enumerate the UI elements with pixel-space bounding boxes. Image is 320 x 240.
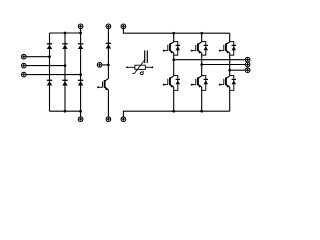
node: phase W junction [228,69,231,72]
wire: DC+ elbow into inverter top rail [123,28,124,33]
terminal chopper brake output [97,63,102,68]
wire: leg U midpoint vertical [173,53,175,76]
wire: diode D11 branch [202,76,206,91]
wire: chopper upper lead [107,28,109,78]
wire: rectifier bottom DC- rail [50,110,81,112]
wire: diode D10 branch [202,42,206,56]
node: AC L3/T junction [79,73,82,76]
node: top rail junction leg2 [64,32,67,35]
wire: rectifier leg 3 vertical [80,33,82,111]
terminal AC input L1/R [21,54,26,59]
node: top rail junction V [200,32,203,35]
terminal chopper bottom [106,117,111,122]
wire: leg W midpoint vertical [229,53,231,76]
wire: rectifier leg 2 vertical [64,33,66,111]
wire: DC+ terminal lead [80,28,82,33]
wire: AC input L3/T to leg [26,74,81,76]
node: bottom rail junction U [172,110,175,113]
diode D3 (leg3 upper) [78,44,83,49]
node: thermistor right pin [151,66,153,68]
terminal phase output W [245,68,250,73]
diode D5 (leg2 lower) [62,80,67,85]
wire: leg V midpoint vertical [201,53,203,76]
diode D13 (freewheel bottom W) [232,79,236,84]
node: top rail junction U [172,32,175,35]
transistor Q6 (bottom IGBT W) [219,76,230,88]
terminal inverter DC- [121,117,126,122]
diode D11 (freewheel bottom V) [204,79,208,84]
node: AC L1/R junction [48,55,51,58]
diode D10 (freewheel top V) [204,45,208,50]
terminal chopper top (DC+ in) [106,24,111,29]
transistor Q2 (bottom IGBT U) [163,76,174,88]
diode D1 (leg1 upper) [47,44,52,49]
terminal DC- (rectifier output minus) [78,117,83,122]
wire: leg U emitter stub [173,87,175,111]
terminal AC input L2/S [21,63,26,68]
node: phase V junction [200,63,203,66]
diode D7 (chopper) [106,43,111,48]
wire: DC- terminal lead [80,111,82,117]
diode D4 (leg1 lower) [47,80,52,85]
wire: leg W emitter stub [229,87,231,111]
wire: diode D13 branch [230,76,234,91]
wire: diode D8 branch [174,42,178,56]
wire: phase output V [202,64,246,66]
node: top rail junction leg3 [79,32,82,35]
wire: AC input L2/S to leg [26,65,65,67]
wire: leg V collector stub [201,33,203,42]
wire: brake terminal to chopper leg [102,64,109,66]
transistor Q4 (bottom IGBT V) [191,76,202,88]
wire: leg V emitter stub [201,87,203,111]
wire: thermistor left lead [128,66,135,68]
thermistor RT1 diagonal [132,60,145,74]
terminal phase output V [245,62,250,67]
terminal AC input L3/T [21,72,26,77]
wire: diode D9 branch [174,76,178,91]
wire: chopper lower lead [107,90,109,118]
wire: AC input L1/R to leg [26,56,50,58]
terminal phase output U [245,57,250,62]
wire: DC- elbow into inverter bottom rail [123,111,124,117]
node: AC L2/S junction [64,64,67,67]
diode D6 (leg3 lower) [78,80,83,85]
wire: inverter bottom DC- rail [124,110,229,112]
diode D2 (leg2 upper) [62,44,67,49]
wire: diode D12 branch [230,42,234,56]
terminal inverter DC+ [121,24,126,29]
wire: rectifier leg 1 vertical [49,33,51,111]
node: thermistor left pin [126,66,128,68]
transistor Q3 (top IGBT V) [191,42,202,54]
transistor Q1 (top IGBT U) [163,42,174,54]
diode D8 (freewheel top U) [176,45,180,50]
wire: rectifier top DC+ rail [50,32,81,34]
node: bottom rail junction V [200,110,203,113]
transistor Q7 (chopper IGBT) [97,79,108,91]
diode D9 (freewheel bottom U) [176,79,180,84]
thermistor isolation double bar [145,50,148,63]
wire: phase output W [230,69,246,71]
wire: leg W collector stub [229,33,231,42]
wire: inverter top DC+ rail [124,32,229,34]
wire: thermistor right lead [145,66,151,68]
terminal DC+ (rectifier output plus) [78,24,83,29]
wire: phase output U [174,59,246,61]
wire: leg U collector stub [173,33,175,42]
diode D12 (freewheel top W) [232,45,236,50]
node: bottom rail junction leg3 [79,110,82,113]
transistor Q5 (top IGBT W) [219,42,230,54]
node: chopper mid junction [107,64,110,67]
node: bottom rail junction leg2 [64,110,67,113]
thermistor RT1 body [135,65,145,69]
thermistor temperature symbol (theta) [140,71,143,75]
node: phase U junction [172,58,175,61]
